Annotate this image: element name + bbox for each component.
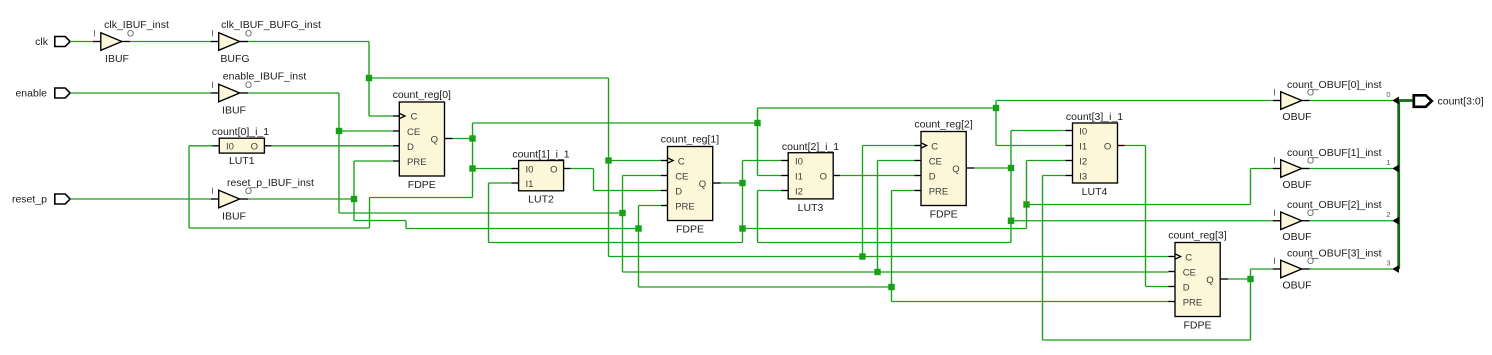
svg-text:D: D: [675, 186, 682, 197]
svg-text:count_OBUF[2]_inst: count_OBUF[2]_inst: [1287, 199, 1382, 211]
svg-text:I: I: [211, 29, 214, 39]
svg-text:I: I: [93, 29, 96, 39]
flip-flop count_reg[0]: [393, 89, 453, 191]
junction enable at count_reg[1] CE riser: [619, 210, 625, 216]
bus tap bit 3: [1386, 258, 1399, 273]
wire clk IBUF to BUFG: [130, 41, 211, 43]
svg-text:C: C: [931, 141, 938, 152]
svg-text:LUT2: LUT2: [528, 193, 554, 205]
buffer reset_p_IBUF_inst: [211, 177, 314, 223]
svg-text:CE: CE: [675, 171, 688, 182]
svg-text:I3: I3: [1079, 171, 1087, 182]
svg-text:I: I: [1273, 256, 1276, 266]
svg-text:LUT3: LUT3: [798, 202, 824, 214]
svg-text:O: O: [550, 164, 557, 175]
svg-text:0: 0: [1386, 90, 1390, 99]
svg-text:I0: I0: [1079, 126, 1087, 137]
junction count_OBUF[1] at feedback split: [739, 225, 745, 231]
svg-text:Q: Q: [952, 164, 959, 175]
junction count_OBUF[0] at OBUF riser: [993, 105, 999, 111]
wire count_OBUF[3] net from count_reg[3] Q: [1043, 176, 1273, 341]
wire count_OBUF[1] net from count_reg[1] Q: [489, 161, 1273, 243]
svg-text:count_reg[0]: count_reg[0]: [393, 89, 451, 101]
junction clock at count_reg[1] C: [605, 157, 611, 163]
LUT count[2]_i_1: [781, 141, 840, 214]
svg-text:OBUF: OBUF: [1282, 179, 1311, 191]
bus tap bit 1: [1386, 158, 1399, 173]
svg-text:CE: CE: [407, 127, 420, 138]
svg-text:LUT1: LUT1: [229, 155, 255, 167]
svg-text:Q: Q: [699, 179, 706, 190]
svg-text:I2: I2: [1079, 156, 1087, 167]
svg-text:OBUF: OBUF: [1282, 279, 1311, 291]
LUT count[3]_i_1: [1065, 111, 1124, 198]
svg-text:CE: CE: [929, 156, 942, 167]
input port clk: [35, 36, 70, 48]
svg-text:count_reg[2]: count_reg[2]: [914, 119, 972, 131]
svg-text:I1: I1: [526, 179, 534, 190]
wire clock net branch to count_reg[1..3]: [369, 78, 1169, 257]
wire reset net: [248, 161, 1169, 302]
junction enable at count_reg[2] CE riser: [874, 269, 880, 275]
buffer enable_IBUF_inst: [211, 70, 307, 116]
bus tap bit 0: [1386, 90, 1399, 105]
svg-text:I: I: [1273, 156, 1276, 166]
junction clock at count_reg[2] C riser: [859, 253, 865, 259]
junction enable at count_reg[0] CE: [336, 128, 342, 134]
svg-text:I: I: [211, 80, 214, 90]
svg-text:C: C: [678, 156, 685, 167]
svg-text:OBUF: OBUF: [1282, 231, 1311, 243]
wire count_OBUF[0] net from count_reg[0] Q: [189, 101, 1273, 229]
junction count_OBUF[0] at Q: [469, 135, 475, 141]
wire reset_p port to IBUF: [70, 198, 211, 200]
svg-text:C: C: [411, 112, 418, 123]
svg-text:PRE: PRE: [675, 201, 695, 212]
flip-flop count_reg[2]: [914, 119, 974, 221]
svg-text:count[3:0]: count[3:0]: [1438, 96, 1484, 108]
svg-text:D: D: [929, 171, 936, 182]
bus tap bit 2: [1386, 210, 1399, 225]
junction count_OBUF[0] at LUT3 riser: [754, 120, 760, 126]
svg-text:BUFG: BUFG: [220, 53, 249, 65]
svg-text:3: 3: [1386, 258, 1390, 267]
svg-text:count[2]_i_1: count[2]_i_1: [782, 141, 839, 153]
wire LUT2 O to count_reg[1] D: [571, 169, 661, 191]
svg-text:count_reg[1]: count_reg[1]: [661, 134, 719, 146]
junction count_OBUF[0] at LUT2 I0: [469, 165, 475, 171]
wire count_OBUF[2] to bus: [1310, 220, 1393, 222]
wire count_OBUF[3] to bus: [1310, 268, 1393, 270]
svg-text:I: I: [211, 186, 214, 196]
wire count_OBUF[1] to bus: [1310, 168, 1393, 170]
svg-text:count[0]_i_1: count[0]_i_1: [212, 126, 269, 138]
buffer count_OBUF[0]_inst: [1273, 79, 1382, 123]
svg-text:IBUF: IBUF: [222, 210, 246, 222]
svg-text:O: O: [251, 141, 258, 152]
svg-text:PRE: PRE: [929, 186, 949, 197]
svg-text:count_reg[3]: count_reg[3]: [1168, 230, 1226, 242]
junction count_OBUF[3] at Q: [1247, 276, 1253, 282]
junction count_OBUF[1] at LUT4 riser: [1023, 201, 1029, 207]
svg-text:PRE: PRE: [1183, 297, 1203, 308]
svg-text:clk_IBUF_inst: clk_IBUF_inst: [104, 19, 169, 31]
svg-text:count_OBUF[3]_inst: count_OBUF[3]_inst: [1287, 247, 1382, 259]
svg-text:I0: I0: [526, 164, 534, 175]
svg-text:I: I: [1273, 88, 1276, 98]
wire clk port to IBUF: [70, 41, 93, 43]
wire LUT1 O to count_reg[0] D: [272, 145, 393, 147]
wire clock net BUFG output: [248, 42, 393, 117]
svg-text:1: 1: [1386, 158, 1390, 167]
svg-text:Q: Q: [1206, 275, 1213, 286]
svg-text:FDPE: FDPE: [408, 179, 436, 191]
svg-text:FDPE: FDPE: [1183, 320, 1211, 332]
svg-text:reset_p_IBUF_inst: reset_p_IBUF_inst: [227, 177, 314, 189]
svg-text:count_OBUF[1]_inst: count_OBUF[1]_inst: [1287, 147, 1382, 159]
svg-text:FDPE: FDPE: [930, 209, 958, 221]
svg-text:O: O: [1104, 141, 1111, 152]
svg-text:PRE: PRE: [407, 157, 427, 168]
junction reset at count_reg[0] PRE riser: [351, 196, 357, 202]
wire count_OBUF[2] net from count_reg[2] Q: [758, 131, 1273, 243]
output bus count[3:0]: [1397, 101, 1414, 270]
junction reset at count_reg[1] PRE riser: [635, 225, 641, 231]
svg-text:I0: I0: [795, 156, 803, 167]
output port count[3:0]: [1414, 95, 1484, 107]
wire count_OBUF[0] to bus: [1310, 100, 1393, 102]
svg-text:count_OBUF[0]_inst: count_OBUF[0]_inst: [1287, 79, 1382, 91]
flip-flop count_reg[3]: [1168, 230, 1228, 332]
svg-text:reset_p: reset_p: [12, 194, 47, 206]
flip-flop count_reg[1]: [661, 134, 721, 236]
buffer count_OBUF[2]_inst: [1273, 199, 1382, 243]
svg-text:LUT4: LUT4: [1082, 186, 1108, 198]
junction count_OBUF[2] at OBUF branch: [1008, 218, 1014, 224]
svg-text:I1: I1: [1079, 141, 1087, 152]
svg-text:C: C: [1185, 252, 1192, 263]
svg-text:I0: I0: [226, 141, 234, 152]
svg-text:count[1]_i_1: count[1]_i_1: [512, 149, 569, 161]
svg-text:FDPE: FDPE: [676, 224, 704, 236]
svg-text:OBUF: OBUF: [1282, 111, 1311, 123]
svg-text:D: D: [407, 142, 414, 153]
svg-text:IBUF: IBUF: [105, 53, 129, 65]
svg-text:count[3]_i_1: count[3]_i_1: [1066, 111, 1123, 123]
svg-text:IBUF: IBUF: [222, 104, 246, 116]
wire enable net: [248, 93, 1169, 272]
buffer count_OBUF[1]_inst: [1273, 147, 1382, 191]
svg-text:clk: clk: [35, 36, 49, 48]
svg-text:clk_IBUF_BUFG_inst: clk_IBUF_BUFG_inst: [221, 19, 321, 31]
svg-text:2: 2: [1386, 210, 1390, 219]
buffer clk_IBUF_BUFG_inst: [211, 19, 321, 65]
junction clock net: [366, 75, 372, 81]
input port enable: [15, 88, 70, 100]
junction count_OBUF[1] at Q: [739, 180, 745, 186]
svg-text:I1: I1: [795, 171, 803, 182]
wire enable port to IBUF: [70, 92, 211, 94]
wire LUT3 O to count_reg[2] D: [840, 175, 914, 177]
svg-text:I2: I2: [795, 186, 803, 197]
svg-text:CE: CE: [1183, 267, 1196, 278]
buffer count_OBUF[3]_inst: [1273, 247, 1382, 291]
svg-text:D: D: [1183, 282, 1190, 293]
junction reset at count_reg[2] PRE riser: [888, 284, 894, 290]
wire LUT4 O to count_reg[3] D: [1125, 146, 1169, 287]
LUT count[1]_i_1: [512, 149, 571, 206]
svg-text:O: O: [820, 171, 827, 182]
svg-text:enable: enable: [15, 88, 47, 100]
buffer clk_IBUF_inst: [93, 19, 169, 65]
svg-text:Q: Q: [431, 134, 438, 145]
junction count_OBUF[2] at Q: [1008, 165, 1014, 171]
svg-text:enable_IBUF_inst: enable_IBUF_inst: [223, 70, 307, 82]
input port reset_p: [12, 194, 70, 206]
LUT count[0]_i_1: [212, 126, 272, 167]
svg-text:I: I: [1273, 208, 1276, 218]
